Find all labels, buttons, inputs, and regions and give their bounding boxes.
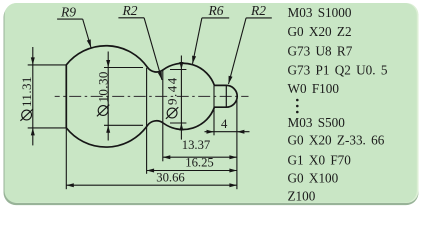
dimension D9.44 line — [180, 56, 182, 140]
16.25 left arrow — [147, 169, 155, 173]
D10.30 top extension — [104, 67, 143, 69]
svg-text:G1 X0 F70: G1 X0 F70 — [288, 153, 352, 168]
dimension 16.25 extension — [146, 68, 148, 174]
16.25 right arrow — [229, 169, 237, 173]
dimension 4 line — [205, 131, 250, 133]
svg-text:M03 S1000: M03 S1000 — [288, 5, 352, 20]
svg-text:Z100: Z100 — [288, 189, 316, 204]
right end extension line — [236, 99, 238, 189]
svg-text:W0 F100: W0 F100 — [288, 81, 340, 96]
D9.44 bottom extension — [170, 122, 186, 124]
svg-text:R6: R6 — [208, 3, 224, 18]
13.37 right arrow — [229, 155, 237, 159]
part profile outline — [66, 46, 237, 147]
svg-text:10.30: 10.30 — [96, 71, 111, 102]
R6 leader arrow — [192, 56, 196, 64]
R9 underline — [57, 18, 83, 20]
centerline (part axis) — [55, 95, 249, 97]
svg-text:30.66: 30.66 — [156, 171, 185, 185]
13.37 left arrow — [163, 155, 171, 159]
dimension D11.31 line — [32, 47, 34, 145]
R2 fillet leader arrow — [158, 72, 162, 80]
cap junction line — [225, 85, 227, 107]
30.66 left arrow — [66, 183, 74, 187]
D9.44 bottom arrow — [179, 123, 183, 131]
D10.30 bottom extension — [104, 124, 143, 126]
D10.30 text — [96, 71, 111, 116]
dimension 30.66 left extension (below left face) — [65, 128, 67, 189]
D11.31 top arrow — [31, 57, 35, 65]
30.66 right arrow — [229, 183, 237, 187]
D9.44 top arrow — [179, 62, 183, 70]
svg-text:G73 U8 R7: G73 U8 R7 — [288, 43, 353, 58]
R2 cap underline — [246, 17, 272, 19]
dim 4 right arrow — [237, 130, 245, 134]
R2 fillet underline — [118, 17, 144, 19]
R2 fillet leader — [144, 18, 162, 80]
dim 4 left arrow — [207, 130, 215, 134]
svg-text:G0 X20 Z2: G0 X20 Z2 — [288, 24, 352, 39]
dimension D10.30 line — [107, 52, 109, 141]
G-code text block — [288, 5, 388, 204]
svg-text:R9: R9 — [60, 5, 76, 20]
vertical ellipsis — [296, 99, 299, 114]
dimension 16.25 line — [147, 170, 237, 172]
R2 cap leader arrow — [229, 76, 233, 84]
svg-text:G0 X20 Z-33. 66: G0 X20 Z-33. 66 — [288, 133, 385, 148]
D11.31 text — [19, 76, 34, 121]
dimension 30.66 line — [66, 184, 237, 186]
svg-text:9.44: 9.44 — [165, 76, 180, 105]
R6 underline — [202, 17, 229, 19]
stub shoulder line + ext line for dim 4 — [213, 85, 215, 135]
svg-text:11.31: 11.31 — [19, 76, 34, 107]
svg-text:4: 4 — [221, 117, 228, 131]
svg-text:G73 P1 Q2 U0. 5: G73 P1 Q2 U0. 5 — [288, 62, 388, 77]
R9 leader arrow — [87, 39, 91, 47]
svg-text:M03 S500: M03 S500 — [288, 115, 346, 130]
D10.30 bottom arrow — [106, 125, 110, 133]
svg-text:R2: R2 — [122, 3, 138, 18]
D11.31 bottom extension — [28, 127, 67, 129]
dimension 13.37 extension — [162, 70, 164, 161]
D9.44 text — [165, 76, 180, 119]
D10.30 top arrow — [106, 60, 110, 68]
R2 cap leader — [229, 18, 247, 84]
R6 leader — [193, 18, 202, 64]
svg-text:G0 X100: G0 X100 — [288, 171, 339, 186]
R9 leader — [83, 19, 91, 47]
svg-text:R2: R2 — [250, 3, 266, 18]
svg-text:13.37: 13.37 — [182, 138, 211, 152]
D9.44 top extension — [170, 69, 186, 71]
dimension 13.37 line — [163, 156, 237, 158]
svg-text:16.25: 16.25 — [185, 156, 214, 170]
D11.31 top extension — [28, 64, 67, 66]
D11.31 bottom arrow — [31, 128, 35, 135]
